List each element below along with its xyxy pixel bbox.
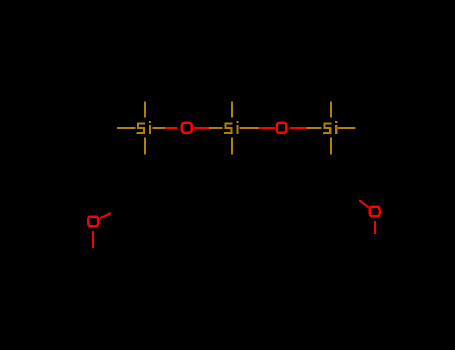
bond Si3 methyl up (gold half) <box>330 102 332 118</box>
bond Si1 methyl up (gold half) <box>144 102 146 118</box>
atom O2 <box>277 123 287 133</box>
bond Si3 methyl right (gold half) <box>338 127 356 129</box>
bond Si3 methyl down (gold half) <box>330 138 332 155</box>
bond Si1-O1 gold half <box>153 127 165 129</box>
atom Si3 <box>323 121 337 134</box>
bond O-ethyl left red half (vertical) <box>92 231 94 248</box>
bond O1-Si2 red half <box>194 127 209 129</box>
bond O-ethyl right red half (vertical) <box>374 221 376 234</box>
bond C-O left ether red half (diagonal) <box>100 213 111 218</box>
bond C-O right ether red half (diagonal) <box>359 200 369 207</box>
atom O left ether <box>88 217 98 227</box>
bond O1-Si2 gold half <box>209 127 223 129</box>
bond Si1 methyl left (gold half) <box>117 127 136 129</box>
atom Si2 <box>224 121 238 134</box>
bond Si1 methyl down (gold half) <box>144 138 146 155</box>
bond Si2 methyl up (gold half) <box>231 102 233 118</box>
bond Si2-O2 red half <box>259 127 275 129</box>
bond Si1-O1 red half <box>165 127 178 129</box>
atom Si1 <box>137 121 151 134</box>
atom O1 <box>182 123 192 133</box>
bond O2-Si3 red half <box>290 127 307 129</box>
bond Si2-O2 gold half <box>240 127 259 129</box>
atom O right ether <box>370 207 380 217</box>
bond Si2 methyl down (gold half) <box>231 138 233 155</box>
bond O2-Si3 gold half <box>306 127 321 129</box>
